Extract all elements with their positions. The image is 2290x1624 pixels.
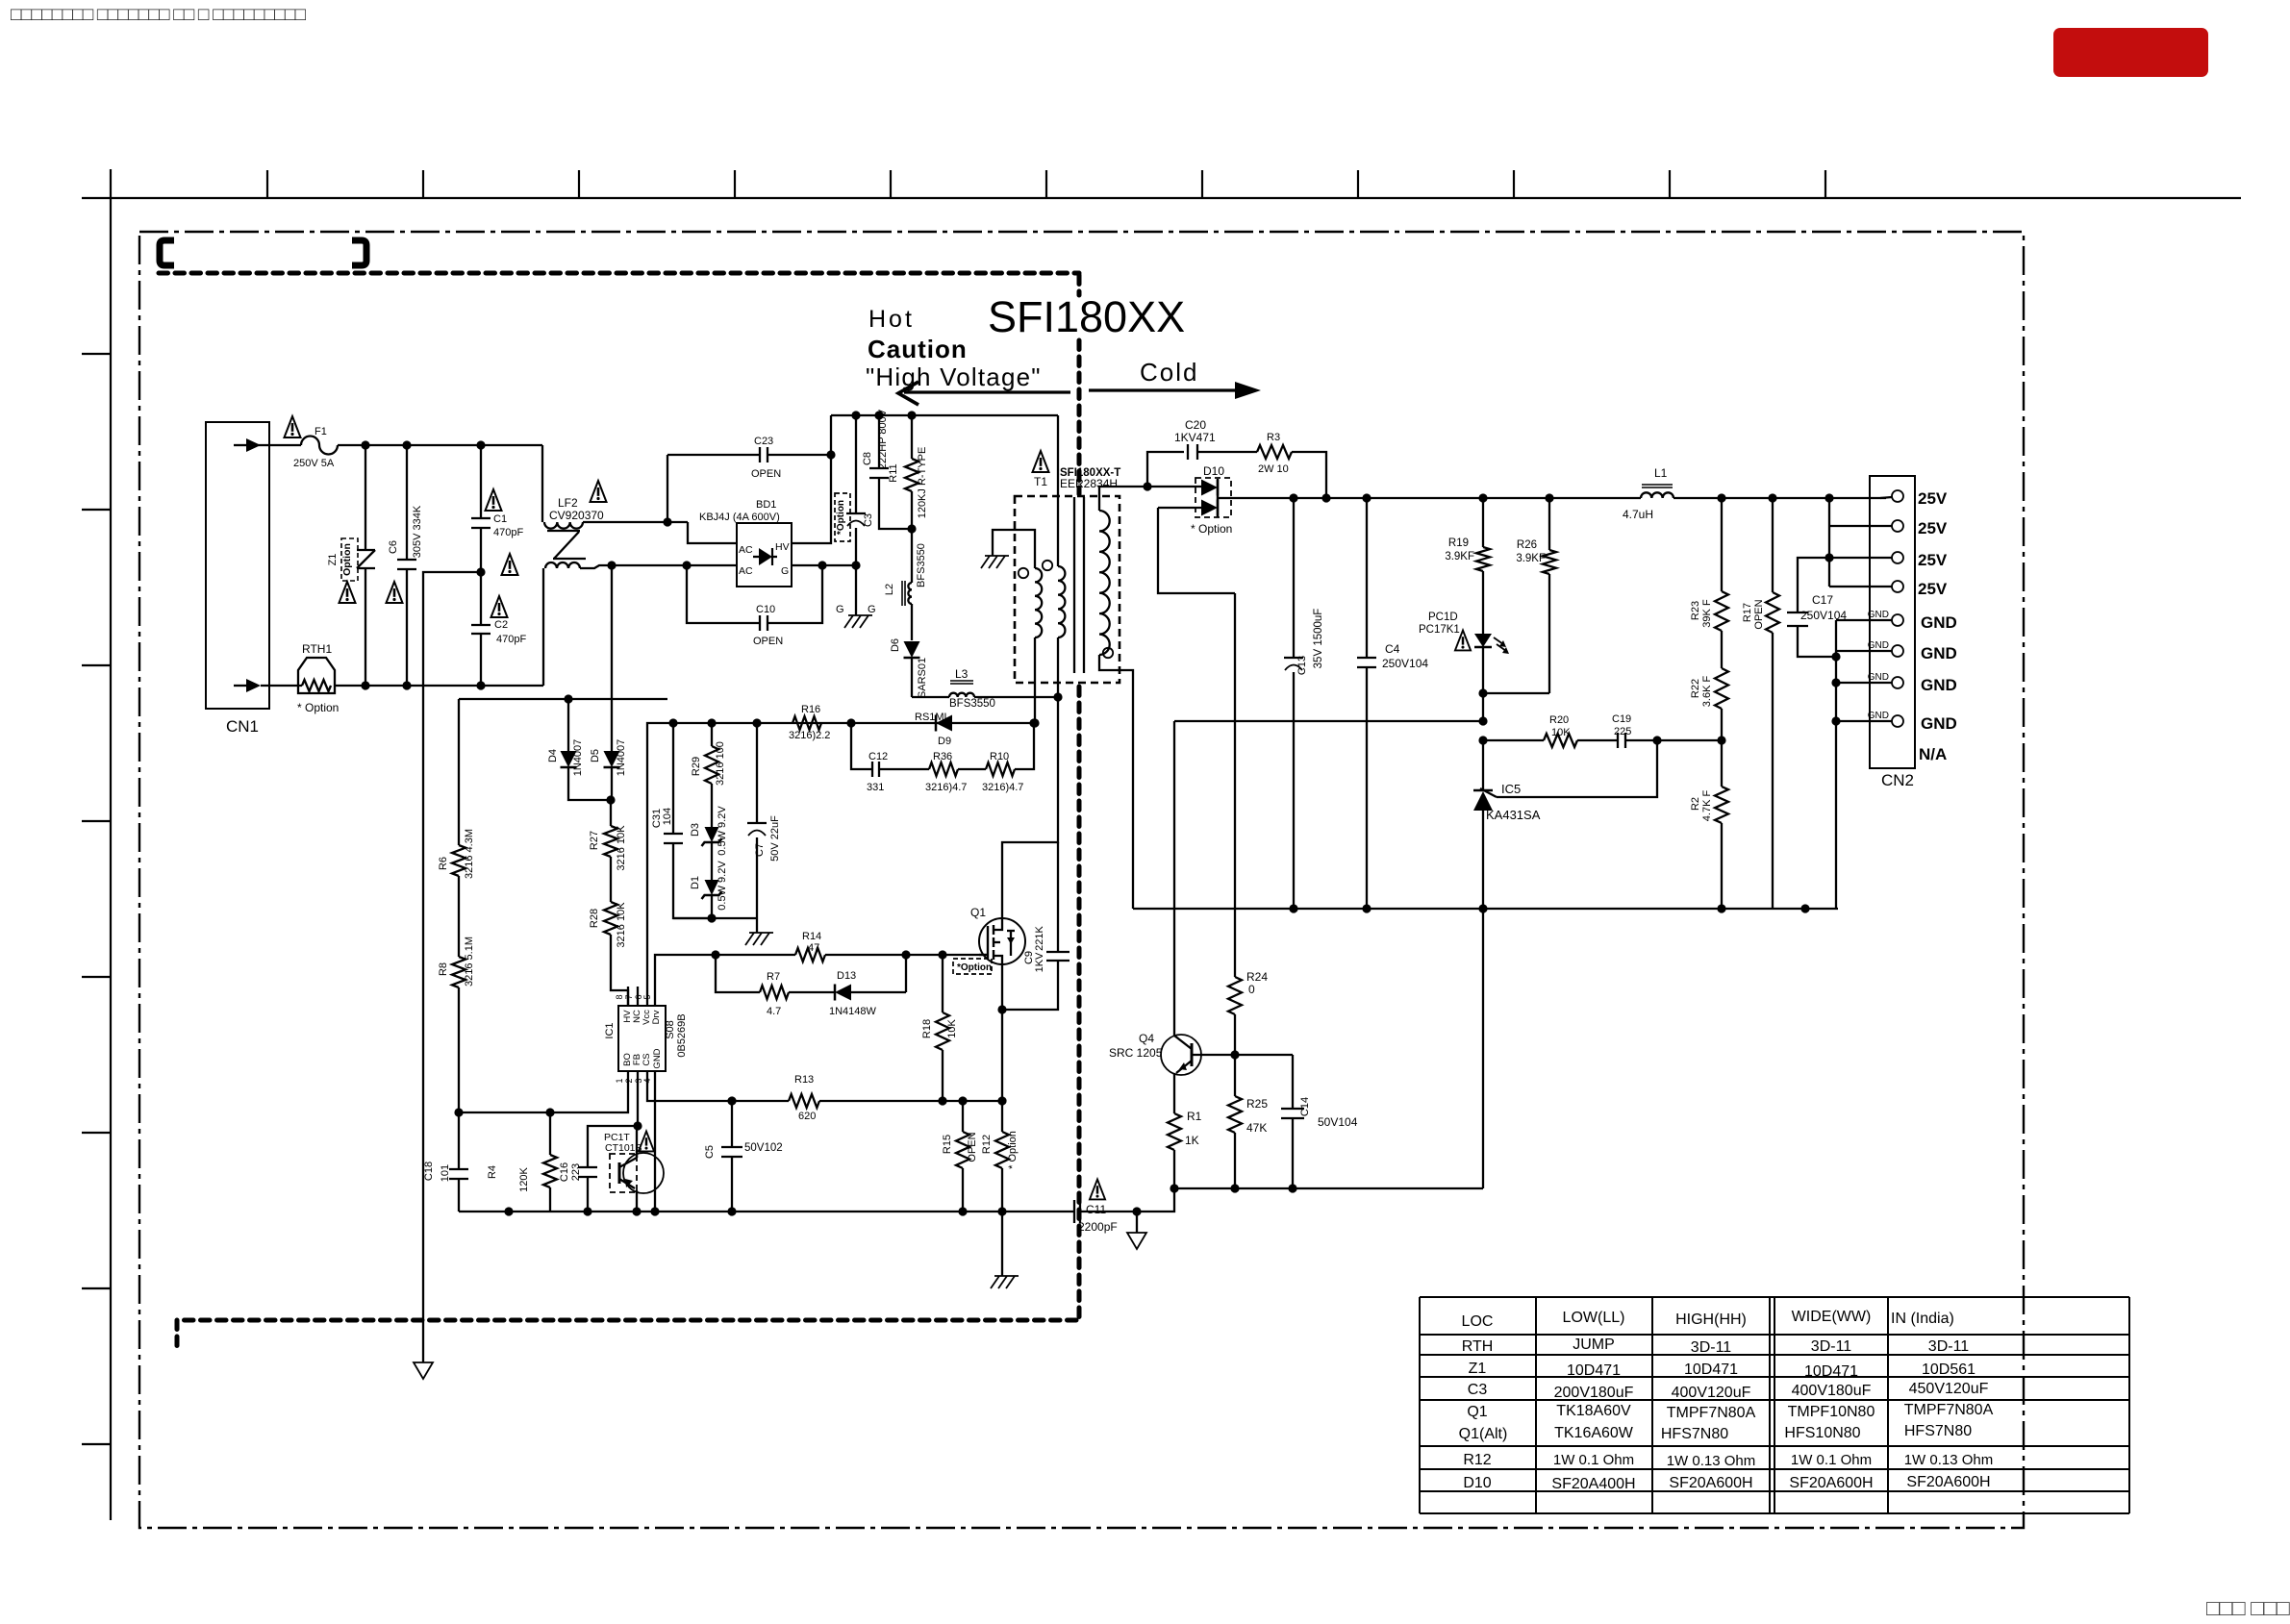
svg-text:C20: C20 bbox=[1185, 418, 1206, 432]
svg-text:IC5: IC5 bbox=[1501, 782, 1521, 796]
svg-text:C6: C6 bbox=[388, 540, 399, 554]
svg-text:3216 4.3M: 3216 4.3M bbox=[464, 829, 475, 879]
wire primary ground bus bbox=[459, 1211, 1073, 1212]
label EER2834H bbox=[1060, 477, 1118, 490]
capacitor C10 bbox=[687, 565, 822, 647]
svg-text:50V 22uF: 50V 22uF bbox=[769, 815, 781, 862]
svg-text:C10: C10 bbox=[756, 604, 775, 615]
svg-text:D1: D1 bbox=[690, 876, 701, 889]
node top-C1 bbox=[476, 440, 485, 449]
svg-text:4.7uH: 4.7uH bbox=[1623, 508, 1653, 521]
title brackets bbox=[160, 240, 366, 265]
svg-text:KA431SA: KA431SA bbox=[1486, 808, 1541, 822]
svg-text:"High Voltage": "High Voltage" bbox=[866, 362, 1042, 391]
node rail-R26 bbox=[1545, 493, 1553, 502]
svg-text:4.7K F: 4.7K F bbox=[1701, 790, 1713, 822]
svg-text:0: 0 bbox=[1248, 983, 1255, 996]
svg-text:WIDE(WW): WIDE(WW) bbox=[1792, 1309, 1872, 1325]
wire Q1 drain bbox=[1002, 697, 1058, 918]
svg-text:R13: R13 bbox=[794, 1074, 814, 1086]
svg-text:0.5W 9.2V: 0.5W 9.2V bbox=[717, 861, 728, 911]
capacitor C23 bbox=[667, 436, 831, 522]
svg-text:R19: R19 bbox=[1448, 537, 1469, 549]
svg-text:*Option: *Option bbox=[957, 962, 992, 973]
svg-text:AC: AC bbox=[739, 544, 753, 556]
wire BO bbox=[459, 1090, 628, 1112]
capacitor C8 bbox=[862, 409, 912, 529]
svg-text:GND: GND bbox=[1868, 672, 1889, 683]
svg-text:R26: R26 bbox=[1517, 539, 1537, 551]
CN2 25V feed bbox=[1829, 497, 1892, 587]
svg-text:10D471: 10D471 bbox=[1567, 1362, 1621, 1379]
node sbot-R25 bbox=[1230, 1184, 1239, 1192]
svg-text:120K: 120K bbox=[518, 1166, 530, 1191]
node sgnd-R2 bbox=[1717, 904, 1725, 912]
svg-text:F1: F1 bbox=[315, 426, 327, 437]
node LF2-D5 bbox=[607, 561, 616, 569]
wire bottom AC line bbox=[335, 685, 543, 687]
svg-text:SARS01: SARS01 bbox=[917, 658, 928, 698]
node aux-C31 bbox=[668, 718, 677, 727]
shunt regulator IC5 KA431SA bbox=[1473, 740, 1541, 909]
warning triangle right of LF2 bbox=[591, 481, 607, 502]
svg-text:10D471: 10D471 bbox=[1684, 1362, 1738, 1378]
svg-text:25V: 25V bbox=[1918, 519, 1948, 537]
svg-text:*Option: *Option bbox=[836, 500, 846, 535]
svg-text:LF2: LF2 bbox=[558, 496, 578, 510]
svg-text:SF20A600H: SF20A600H bbox=[1906, 1474, 1990, 1490]
node pgnd-C16 bbox=[583, 1207, 591, 1215]
svg-text:1W 0.1 Ohm: 1W 0.1 Ohm bbox=[1791, 1452, 1872, 1468]
svg-text:OPEN: OPEN bbox=[751, 468, 781, 480]
svg-text:Q1: Q1 bbox=[1467, 1404, 1487, 1420]
svg-text:3216 10K: 3216 10K bbox=[616, 902, 627, 948]
T1 secondary polarity dot bbox=[1103, 648, 1113, 658]
transformer core lines bbox=[1074, 497, 1084, 673]
svg-text:PC17K1: PC17K1 bbox=[1419, 624, 1460, 636]
cold arrow right bbox=[1089, 382, 1261, 399]
svg-text:R20: R20 bbox=[1549, 714, 1569, 726]
node bot-Z1 bbox=[361, 681, 369, 689]
resistor R4 bbox=[487, 1112, 557, 1212]
capacitor C9 bbox=[1002, 842, 1070, 1010]
svg-text:Hot: Hot bbox=[868, 306, 915, 333]
svg-text:R15: R15 bbox=[942, 1135, 953, 1154]
node LED-R26 bbox=[1478, 688, 1487, 697]
T1 primary aux winding bbox=[993, 530, 1042, 723]
svg-text:TK18A60V: TK18A60V bbox=[1556, 1403, 1631, 1419]
feedback R20 C19 bbox=[1483, 713, 1722, 748]
wire D10 bottom feed bbox=[1158, 508, 1235, 593]
svg-text:SF20A600H: SF20A600H bbox=[1669, 1475, 1752, 1491]
svg-text:3.9KF: 3.9KF bbox=[1516, 553, 1546, 564]
svg-text:SF20A400H: SF20A400H bbox=[1551, 1476, 1635, 1492]
node opto-Q4 bbox=[1478, 716, 1487, 725]
svg-text:223: 223 bbox=[570, 1163, 582, 1181]
diode D9 RS1ML bbox=[915, 712, 952, 747]
node pgnd-PC1T bbox=[632, 1207, 641, 1215]
svg-text:* Option: * Option bbox=[1191, 522, 1232, 536]
node rail-R17 bbox=[1768, 493, 1776, 502]
node G-C3 bbox=[851, 561, 860, 569]
wire to secondary gnd bbox=[1137, 1188, 1174, 1212]
svg-text:Q1(Alt): Q1(Alt) bbox=[1459, 1426, 1508, 1442]
node FB-C16 bbox=[633, 1121, 642, 1130]
option table grid bbox=[1420, 1297, 2129, 1513]
svg-text:* Option: * Option bbox=[1007, 1131, 1019, 1169]
ruler left tick marks bbox=[82, 354, 111, 1444]
wire output rail bbox=[1231, 497, 1886, 499]
svg-text:3216)2.2: 3216)2.2 bbox=[789, 730, 830, 741]
svg-text:BFS3550: BFS3550 bbox=[949, 698, 995, 710]
hot area thick dashed boundary top bbox=[159, 271, 1079, 276]
svg-text:470pF: 470pF bbox=[496, 634, 526, 645]
svg-text:0B5269B: 0B5269B bbox=[676, 1013, 688, 1057]
zener diode D3 bbox=[690, 806, 728, 880]
node rail-R23 bbox=[1717, 493, 1725, 502]
resistor R22 bbox=[1690, 668, 1728, 740]
svg-text:1N4007: 1N4007 bbox=[572, 739, 584, 777]
warning triangle right of mid bbox=[502, 554, 518, 575]
svg-text:305V 334K: 305V 334K bbox=[412, 505, 423, 558]
svg-text:R28: R28 bbox=[589, 909, 600, 928]
svg-text:1: 1 bbox=[615, 1078, 624, 1083]
CN2 GND feed bbox=[1836, 620, 1892, 909]
dash-dot border frame bbox=[139, 232, 2024, 1528]
wire zener gnd bus bbox=[673, 917, 757, 919]
svg-text:CS: CS bbox=[642, 1053, 652, 1065]
svg-text:AC: AC bbox=[739, 565, 753, 577]
svg-text:D4: D4 bbox=[547, 749, 559, 762]
svg-text:R18: R18 bbox=[921, 1019, 933, 1038]
svg-text:250V 5A: 250V 5A bbox=[293, 458, 335, 469]
node gnd-C17 bbox=[1831, 652, 1840, 661]
svg-text:3.9KF: 3.9KF bbox=[1445, 551, 1474, 562]
wire HV sense bbox=[459, 698, 667, 700]
svg-text:R24: R24 bbox=[1246, 970, 1268, 984]
T1 primary polarity dot bbox=[1043, 561, 1052, 570]
svg-text:IN (India): IN (India) bbox=[1891, 1311, 1954, 1327]
svg-text:D3: D3 bbox=[690, 823, 701, 837]
resistor R28 bbox=[589, 857, 628, 1006]
capacitor C11 bbox=[1074, 1200, 1137, 1234]
svg-text:1W 0.13 Ohm: 1W 0.13 Ohm bbox=[1667, 1453, 1756, 1469]
svg-text:GND: GND bbox=[1868, 640, 1889, 651]
inductor L1 bbox=[1623, 466, 1673, 521]
svg-text:25V: 25V bbox=[1918, 489, 1948, 508]
svg-text:HIGH(HH): HIGH(HH) bbox=[1675, 1312, 1747, 1328]
svg-text:S08: S08 bbox=[665, 1020, 676, 1039]
svg-text:R6: R6 bbox=[438, 857, 449, 870]
svg-text:50V102: 50V102 bbox=[744, 1142, 783, 1154]
ground hatch below R12 bbox=[991, 1212, 1019, 1288]
node top-C6 bbox=[402, 440, 411, 449]
resistor R2 bbox=[1690, 740, 1728, 909]
capacitor C18 bbox=[423, 1112, 468, 1212]
node top-Z1 bbox=[361, 440, 369, 449]
svg-text:Drv: Drv bbox=[651, 1010, 662, 1024]
svg-text:10D561: 10D561 bbox=[1922, 1362, 1975, 1378]
transistor Q4 bbox=[1109, 1032, 1201, 1075]
svg-text:Caution: Caution bbox=[868, 335, 968, 363]
svg-text:GND: GND bbox=[652, 1048, 663, 1068]
node aux-R10 bbox=[1029, 718, 1038, 727]
svg-text:1W 0.1 Ohm: 1W 0.1 Ohm bbox=[1553, 1452, 1634, 1468]
resistor R18 bbox=[921, 955, 958, 1101]
node CN2 pin3 feed bbox=[1824, 553, 1833, 562]
node rail-R11 bbox=[907, 411, 916, 419]
svg-text:47: 47 bbox=[808, 942, 819, 954]
warning triangle below Z1 bbox=[340, 582, 356, 603]
node aux-R29 bbox=[707, 718, 716, 727]
svg-text:C12: C12 bbox=[868, 751, 888, 762]
svg-text:50V104: 50V104 bbox=[1318, 1115, 1358, 1129]
svg-text:HFS10N80: HFS10N80 bbox=[1784, 1425, 1860, 1441]
snubber branch C12 R36 R10 bbox=[851, 723, 1034, 793]
svg-text:□□□ □□□: □□□ □□□ bbox=[2206, 1595, 2290, 1619]
wire Drv bbox=[655, 955, 716, 987]
optocoupler PC1T bbox=[604, 1132, 664, 1212]
T1 aux polarity dot bbox=[1019, 568, 1028, 578]
bridge rectifier BD1 bbox=[699, 499, 792, 587]
hot area thick dashed boundary right upper bbox=[1077, 275, 1082, 494]
svg-text:CN1: CN1 bbox=[226, 717, 259, 736]
capacitor C20 bbox=[1147, 418, 1257, 487]
wire Q4 collector bbox=[1173, 721, 1175, 1037]
warning triangle below C6 bbox=[387, 582, 403, 603]
capacitor C4 bbox=[1357, 498, 1428, 909]
node Drv-R14 bbox=[711, 950, 719, 959]
node HV-D4 bbox=[564, 694, 572, 703]
diode D4 bbox=[547, 699, 611, 800]
IC1 pin 8 stub bbox=[615, 987, 628, 1006]
resistor R29 bbox=[691, 723, 726, 827]
node C23-HV bbox=[826, 450, 835, 459]
svg-text:GND: GND bbox=[1921, 644, 1957, 662]
svg-text:3216 100: 3216 100 bbox=[715, 741, 726, 786]
wire Q4 collector link bbox=[1174, 720, 1483, 722]
wire CS bbox=[647, 1090, 789, 1101]
ruler top tick marks bbox=[267, 170, 1825, 198]
fuse F1 bbox=[257, 426, 338, 469]
svg-text:D5: D5 bbox=[590, 749, 601, 762]
node LF2-C23 bbox=[663, 517, 671, 526]
svg-text:□□□□□□□□ □□□□□□□ □□ □ □□□□□□□□: □□□□□□□□ □□□□□□□ □□ □ □□□□□□□□□ bbox=[11, 5, 306, 25]
node rail-C3 bbox=[851, 411, 860, 419]
svg-text:C5: C5 bbox=[704, 1145, 716, 1159]
svg-text:TMPF7N80A: TMPF7N80A bbox=[1904, 1402, 1994, 1418]
svg-text:OPEN: OPEN bbox=[1753, 599, 1765, 629]
svg-text:T1: T1 bbox=[1034, 475, 1047, 488]
ruler top horizontal line bbox=[82, 197, 2241, 199]
node sgnd-C4 bbox=[1362, 904, 1371, 912]
node pgnd-R12 bbox=[997, 1207, 1006, 1215]
inductor L2 bbox=[884, 529, 927, 640]
svg-text:Z1: Z1 bbox=[1469, 1361, 1487, 1377]
svg-text:D6: D6 bbox=[890, 638, 901, 652]
resistor R19 bbox=[1445, 498, 1490, 627]
node source-C9 bbox=[997, 1005, 1006, 1013]
svg-text:R23: R23 bbox=[1690, 601, 1701, 620]
svg-text:400V180uF: 400V180uF bbox=[1792, 1383, 1872, 1399]
wire mid-tap to ground bbox=[423, 572, 481, 1362]
svg-text:C3: C3 bbox=[863, 513, 874, 527]
diode D5 bbox=[590, 565, 627, 800]
capacitor C2 bbox=[471, 572, 526, 686]
node L3-T1 bbox=[1053, 692, 1062, 701]
svg-text:C3: C3 bbox=[1468, 1382, 1488, 1398]
svg-text:3.6K F: 3.6K F bbox=[1701, 676, 1713, 708]
node gnd-pin7 bbox=[1831, 678, 1840, 687]
optocoupler LED PC1D bbox=[1419, 612, 1509, 721]
node rail-C4 bbox=[1362, 493, 1371, 502]
capacitor C13 bbox=[1284, 498, 1324, 909]
node sbot-C14 bbox=[1288, 1184, 1296, 1192]
svg-text:331: 331 bbox=[867, 782, 884, 793]
warning triangle C11 bbox=[1090, 1180, 1105, 1200]
svg-text:104: 104 bbox=[662, 808, 673, 825]
svg-text:C19: C19 bbox=[1612, 713, 1631, 725]
svg-text:3D-11: 3D-11 bbox=[1691, 1339, 1731, 1356]
title SFI180XX bbox=[988, 292, 1185, 341]
svg-text:3216 5.1M: 3216 5.1M bbox=[464, 937, 475, 987]
svg-text:G: G bbox=[781, 565, 789, 577]
capacitor C6 bbox=[388, 445, 423, 686]
svg-text:RTH1: RTH1 bbox=[302, 642, 332, 656]
IC1 pin 4 stub bbox=[642, 1071, 655, 1090]
node gnd-pin8 bbox=[1831, 716, 1840, 725]
svg-text:OPEN: OPEN bbox=[753, 636, 783, 647]
node sbot-R1 bbox=[1170, 1184, 1178, 1192]
svg-text:D13: D13 bbox=[837, 970, 856, 982]
svg-text:BFS3550: BFS3550 bbox=[916, 543, 927, 587]
capacitor C31 bbox=[651, 723, 712, 918]
svg-text:C2: C2 bbox=[494, 619, 508, 631]
svg-text:5: 5 bbox=[642, 994, 652, 999]
CN2 pin labels bbox=[1918, 489, 1957, 763]
svg-text:R12: R12 bbox=[1463, 1452, 1491, 1468]
node aux winding bottom bbox=[1030, 718, 1039, 727]
svg-text:101: 101 bbox=[440, 1164, 451, 1182]
svg-text:L3: L3 bbox=[955, 667, 969, 681]
svg-text:LOC: LOC bbox=[1462, 1313, 1494, 1330]
warning triangle above C1 bbox=[486, 489, 502, 511]
svg-text:L1: L1 bbox=[1654, 466, 1668, 480]
wire GND pin4 bbox=[654, 1090, 656, 1212]
svg-text:450V120uF: 450V120uF bbox=[1909, 1381, 1989, 1397]
resistor R24 bbox=[1228, 593, 1268, 1055]
svg-text:2200pF: 2200pF bbox=[1078, 1220, 1118, 1234]
wire FB bbox=[637, 1090, 638, 1158]
svg-text:1KV: 1KV bbox=[1034, 952, 1045, 972]
node R13-R15 bbox=[958, 1096, 967, 1105]
svg-text:C23: C23 bbox=[754, 436, 773, 447]
option box at Q1 gate bbox=[953, 959, 992, 974]
svg-text:39K F: 39K F bbox=[1701, 599, 1713, 628]
svg-text:KBJ4J (4A 600V): KBJ4J (4A 600V) bbox=[699, 512, 780, 523]
svg-text:PC1D: PC1D bbox=[1428, 612, 1458, 623]
svg-text:10K: 10K bbox=[946, 1019, 958, 1038]
IC1 pin 6 stub bbox=[634, 987, 647, 1006]
node rail-R19 bbox=[1478, 493, 1487, 502]
svg-text:GND: GND bbox=[1868, 711, 1889, 721]
node pgnd-pin4 bbox=[650, 1207, 659, 1215]
svg-text:3D-11: 3D-11 bbox=[1811, 1338, 1851, 1355]
svg-text:R27: R27 bbox=[589, 831, 600, 850]
zener diode D1 bbox=[690, 861, 728, 918]
svg-text:R29: R29 bbox=[691, 757, 702, 776]
svg-text:Q4: Q4 bbox=[1139, 1032, 1154, 1045]
resistor R15 bbox=[942, 1101, 978, 1212]
capacitor C7 bbox=[747, 723, 781, 918]
node secondary top bbox=[1143, 482, 1151, 490]
svg-text:470pF: 470pF bbox=[493, 527, 523, 538]
svg-text:R17: R17 bbox=[1742, 603, 1753, 622]
svg-text:TMPF10N80: TMPF10N80 bbox=[1788, 1404, 1875, 1420]
svg-text:C7: C7 bbox=[754, 843, 766, 857]
node bot-C6 bbox=[402, 681, 411, 689]
svg-text:CV920370: CV920370 bbox=[549, 509, 604, 522]
MOSFET Q1 bbox=[970, 906, 1025, 964]
ground at T1 aux bbox=[981, 556, 1009, 568]
svg-text:* Option: * Option bbox=[297, 701, 339, 714]
resistor R17 bbox=[1742, 498, 1779, 909]
node bot-C1 bbox=[476, 681, 485, 689]
svg-text:L2: L2 bbox=[884, 584, 895, 595]
IC1 pin 7 stub bbox=[624, 987, 638, 1006]
node rail-C13 bbox=[1289, 493, 1297, 502]
svg-text:EER2834H: EER2834H bbox=[1060, 477, 1118, 490]
ground G near BD1 bbox=[836, 565, 876, 628]
label Caution bbox=[868, 335, 968, 363]
node rail-C8 bbox=[874, 411, 883, 419]
wire Q1 source bbox=[1001, 964, 1003, 1101]
wire top AC line bbox=[338, 444, 542, 446]
resistor R11 bbox=[888, 415, 928, 529]
label T1 bbox=[1034, 475, 1047, 488]
svg-text:200V180uF: 200V180uF bbox=[1554, 1385, 1634, 1401]
svg-text:HV: HV bbox=[775, 541, 790, 553]
red label box top right bbox=[2053, 28, 2208, 77]
hot area thick dashed boundary bottom bbox=[177, 1320, 1076, 1348]
resistor R25 bbox=[1228, 1055, 1268, 1188]
svg-text:R3: R3 bbox=[1267, 432, 1280, 443]
resistor R13 bbox=[789, 1074, 1002, 1122]
node pgnd-R15 bbox=[958, 1207, 967, 1215]
svg-text:8: 8 bbox=[615, 994, 624, 999]
capacitor C17 bbox=[1787, 558, 1847, 657]
svg-text:3D-11: 3D-11 bbox=[1928, 1338, 1969, 1355]
wire BD1 HV to rail bbox=[792, 415, 831, 543]
node D4-D5 bbox=[606, 795, 615, 804]
earth ground below mid-tap wire bbox=[414, 1362, 433, 1379]
node C8-R11 bbox=[907, 524, 916, 533]
page header placeholder glyph text bbox=[11, 5, 306, 25]
svg-text:Option: Option bbox=[341, 543, 353, 576]
capacitor C14 bbox=[1281, 1055, 1358, 1188]
svg-text:CT101B: CT101B bbox=[605, 1142, 642, 1154]
svg-text:R36: R36 bbox=[933, 751, 952, 762]
warning triangle PC1D bbox=[1455, 631, 1471, 651]
capacitor C5 bbox=[704, 1101, 783, 1212]
node pgnd-R4 bbox=[504, 1207, 513, 1215]
wire Q4 base bbox=[1192, 1054, 1293, 1056]
label High Voltage bbox=[866, 362, 1042, 391]
svg-text:R16: R16 bbox=[801, 704, 820, 715]
wire primary top rail bbox=[831, 414, 1058, 416]
node base-R24 bbox=[1230, 1050, 1239, 1059]
node zener-gnd bbox=[707, 913, 716, 922]
